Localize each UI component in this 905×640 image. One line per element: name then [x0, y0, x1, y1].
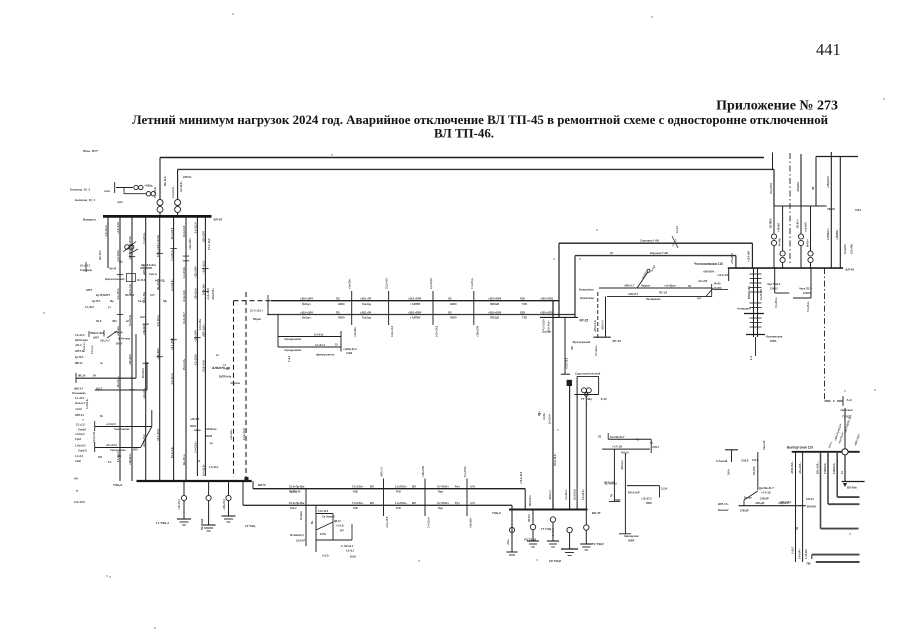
svg-text:НЗЛ9: НЗЛ9 — [338, 317, 345, 320]
svg-text:0,1+20,7: 0,1+20,7 — [80, 264, 91, 268]
svg-text:ЮРА: ЮРА — [770, 339, 777, 343]
svg-text:полн: полн — [104, 190, 110, 193]
svg-text:чапп: чапп — [117, 201, 123, 204]
svg-text:15,7+15,5 +: 15,7+15,5 + — [250, 310, 264, 313]
svg-text:ВЛ-4Т: ВЛ-4Т — [592, 511, 601, 515]
svg-text:Св-Заим43: Св-Заим43 — [322, 516, 335, 519]
svg-text:ЛЗ: ЛЗ — [796, 526, 799, 530]
svg-text:Пр.Юж-42: Пр.Юж-42 — [289, 491, 301, 494]
svg-text:5,4+15,8+: 5,4+15,8+ — [202, 464, 206, 476]
svg-text:5,9,79-Р: 5,9,79-Р — [296, 540, 305, 543]
svg-text:14ч45: 14ч45 — [714, 283, 722, 286]
svg-text:5,9+1,4+: 5,9+1,4+ — [83, 342, 86, 352]
svg-text:РчВ: РчВ — [396, 507, 401, 510]
svg-text:ДВ,19: ДВ,19 — [334, 521, 341, 523]
svg-text:Сортавал ('+95: Сортавал ('+95 — [640, 239, 660, 243]
svg-text:Аэродромная: Аэродромная — [284, 349, 302, 352]
svg-text:Гамб.8: Гамб.8 — [78, 449, 87, 453]
svg-text:т ЗАПВУ: т ЗАПВУ — [410, 303, 421, 306]
svg-text:ПИВ-8 ЧЕЗ: ПИВ-8 ЧЕЗ — [90, 331, 104, 335]
svg-text:Яуег: Яуег — [438, 507, 443, 510]
svg-text:4,2+15,8+: 4,2+15,8+ — [180, 181, 183, 192]
svg-text:+ЧЗ,9+ЛЗ: +ЧЗ,9+ЛЗ — [93, 431, 96, 443]
svg-text:НЗЛ9: НЗЛ9 — [450, 303, 457, 306]
svg-text:ВЛ-Юж: ВЛ-Юж — [847, 486, 857, 490]
svg-text:ВЛ: ВЛ — [412, 501, 416, 505]
svg-text:ВУПЯ'вЧя: ВУПЯ'вЧя — [219, 376, 232, 379]
svg-text:2Б+15,4+: 2Б+15,4+ — [182, 453, 186, 465]
svg-text:13,4+7: 13,4+7 — [676, 225, 679, 233]
svg-text:ПЗ: ПЗ — [336, 310, 340, 314]
svg-text:ГЗ ТЭЦ: ГЗ ТЭЦ — [245, 524, 256, 528]
svg-text:тр1: тр1 — [697, 297, 702, 300]
svg-text:+15+15,4: +15+15,4 — [178, 499, 181, 510]
svg-text:ЛЗ6,4: ЛЗ6,4 — [653, 446, 660, 449]
svg-text:Вбрва: Вбрва — [253, 318, 261, 321]
svg-text:2+15,7: 2+15,7 — [792, 546, 795, 554]
svg-text:4,7+ПЗА+: 4,7+ПЗА+ — [437, 485, 449, 489]
svg-text:+ВЛ+2,4: +ВЛ+2,4 — [621, 460, 624, 470]
svg-text:ЗВ,ЗЭ+: ЗВ,ЗЭ+ — [529, 513, 531, 522]
svg-text:723,9: 723,9 — [855, 209, 862, 212]
svg-text:+2,3+15,8: +2,3+15,8 — [116, 222, 120, 234]
svg-text:4,7ч: 4,7ч — [470, 485, 476, 489]
svg-text:+4,7+1В: +4,7+1В — [761, 492, 771, 495]
svg-text:+ЗБ4+ОЛ1: +ЗБ4+ОЛ1 — [540, 310, 554, 314]
svg-text:31+5В+21,7: 31+5В+21,7 — [759, 486, 774, 490]
svg-text:ВЛ ТП-46.: ВЛ ТП-46. — [434, 127, 494, 141]
svg-text:+ЗВ+ВЗч: +ЗВ+ВЗч — [128, 353, 132, 365]
svg-text:Юлы 4РгТ: Юлы 4РгТ — [83, 149, 98, 153]
svg-text:ГвкЗлд: ГвкЗлд — [362, 303, 371, 306]
svg-text:руч: руч — [340, 530, 345, 532]
svg-text:ВЛ73: ВЛ73 — [258, 483, 266, 487]
svg-text:Чер.ТЭЦ-2: Чер.ТЭЦ-2 — [767, 282, 781, 286]
svg-text:+ЗБ4+ОЛ1: +ЗБ4+ОЛ1 — [540, 297, 554, 301]
svg-text:ВЛ: ВЛ — [412, 485, 416, 489]
svg-text:1,5+ПЗА+: 1,5+ПЗА+ — [395, 501, 407, 505]
svg-text:ВЛ-87: ВЛ-87 — [214, 218, 223, 222]
svg-text:Шк.Речная: Шк.Речная — [75, 339, 88, 342]
svg-text:ВЛ7-17+: ВЛ7-17+ — [718, 502, 729, 506]
svg-text:+3+3,2+: +3+3,2+ — [336, 526, 345, 528]
svg-text:21Р4з: 21Р4з — [183, 175, 192, 179]
svg-text:7,4+15,4+: 7,4+15,4+ — [194, 441, 198, 453]
svg-text:5,4+15,8+: 5,4+15,8+ — [582, 489, 585, 500]
svg-text:С, Писка¹1: С, Писка¹1 — [341, 544, 354, 548]
svg-text:15,2+4,6+: 15,2+4,6+ — [156, 245, 160, 257]
svg-text:+2Б+ОЛ4: +2Б+ОЛ4 — [188, 238, 192, 250]
svg-text:2Л-21,0В: 2Л-21,0В — [604, 482, 615, 485]
svg-text:ТЭЦ-9: ТЭЦ-9 — [113, 483, 122, 487]
svg-text:ВкЗууч: ВкЗууч — [302, 303, 311, 306]
svg-text:СувЗ: СувЗ — [75, 438, 82, 441]
svg-text:15,4+15,6: 15,4+15,6 — [207, 238, 211, 250]
svg-text:АлЫч²а-др: АлЫч²а-др — [212, 366, 230, 370]
svg-text:ЛУ: ЛУ — [688, 285, 692, 288]
svg-text:Шкиперская-ни: Шкиперская-ни — [316, 354, 335, 357]
svg-text:ЧА: ЧА — [74, 477, 78, 481]
svg-text:КР-42: КР-42 — [613, 339, 622, 343]
svg-text:+4(23)+21,9: +4(23)+21,9 — [343, 348, 357, 351]
svg-text:15,2+4,6+: 15,2+4,6+ — [386, 277, 389, 289]
svg-text:94,59: 94,59 — [320, 533, 326, 536]
svg-text:2и+5В+21,7: 2и+5В+21,7 — [610, 435, 625, 439]
svg-text:Гамб: Гамб — [75, 460, 81, 463]
svg-text:ГВ ТЭЦ2: ГВ ТЭЦ2 — [524, 538, 536, 542]
svg-text:Б1+Б2,3: Б1+Б2,3 — [142, 367, 145, 378]
svg-text:2,3+16,5: 2,3+16,5 — [74, 500, 85, 504]
svg-text:Суворовская: Суворовская — [110, 449, 126, 452]
svg-text:Вакарел: Вакарел — [83, 218, 96, 222]
svg-text:15,4+15,6: 15,4+15,6 — [156, 429, 160, 441]
svg-text:14,9+14,6: 14,9+14,6 — [436, 325, 439, 337]
svg-text:21АВЗ: 21АВЗ — [714, 287, 722, 290]
svg-text:ВЛ-42: ВЛ-42 — [846, 267, 855, 271]
svg-text:15,2+4,6+: 15,2+4,6+ — [170, 446, 174, 458]
svg-text:ГамбЗ: ГамбЗ — [78, 427, 86, 431]
svg-text:РуБ: РуБ — [353, 491, 358, 494]
svg-text:Суворовская: Суворовская — [114, 428, 130, 431]
svg-text:ЖК,14: ЖК,14 — [78, 375, 86, 378]
svg-text:2чВА115+: 2чВА115+ — [824, 462, 827, 474]
svg-text:4,7+21,4: 4,7+21,4 — [315, 344, 325, 347]
svg-text:1,9+3,2: 1,9+3,2 — [346, 550, 355, 553]
svg-text:ЬЛГУ: ЬЛГУ — [104, 294, 111, 297]
svg-text:Щ6-78,5+Вяз: Щ6-78,5+Вяз — [141, 264, 157, 267]
svg-text:РуБ: РуБ — [353, 507, 358, 510]
svg-text:НЗЧ9нов: НЗЧ9нов — [206, 428, 217, 431]
svg-text:м: м — [76, 489, 78, 493]
svg-text:1З,5+Лбх: 1З,5+Лбх — [851, 243, 854, 254]
svg-text:Г1 ТЭЦ 3: Г1 ТЭЦ 3 — [156, 521, 169, 525]
svg-text:+Бч+1З,З: +Бч+1З,З — [106, 444, 117, 447]
svg-text:1+15,9б+: 1+15,9б+ — [805, 548, 808, 559]
svg-text:ВЛ: ВЛ — [370, 485, 374, 489]
svg-text:КР-15: КР-15 — [580, 319, 589, 323]
svg-text:2Б+15,4+: 2Б+15,4+ — [194, 287, 198, 299]
svg-text:+15,4+15,2: +15,4+15,2 — [520, 471, 523, 484]
svg-text:Колышево: Колышево — [72, 391, 86, 395]
svg-text:+ЗБ4+ЗЛ4: +ЗБ4+ЗЛ4 — [300, 297, 313, 301]
svg-text:+ВЛ+7,4: +ВЛ+7,4 — [602, 320, 605, 330]
svg-text:1,4+0,2: 1,4+0,2 — [75, 455, 84, 458]
svg-text:+ВЛ+7,4: +ВЛ+7,4 — [549, 490, 552, 500]
svg-text:Горбунки: Горбунки — [80, 268, 92, 272]
svg-text:9.-2: 9.-2 — [750, 355, 753, 360]
svg-text:44,7+ПД: 44,7+ПД — [155, 280, 165, 283]
svg-text:+2Б+ОЛ4: +2Б+ОЛ4 — [476, 325, 479, 337]
svg-text:+2,3+15,8: +2,3+15,8 — [386, 516, 389, 528]
svg-text:Жр: Жр — [110, 300, 114, 303]
svg-text:+ЧЗ,9: +ЧЗ,9 — [75, 408, 82, 411]
svg-text:+ЗВ+ВЗч: +ЗВ+ВЗч — [142, 323, 146, 335]
svg-text:5,4+5,4+: 5,4+5,4+ — [548, 413, 552, 424]
svg-text:Невская: Невская — [841, 408, 853, 412]
svg-text:+9Б+15,3: +9Б+15,3 — [223, 498, 226, 510]
svg-text:НЗЛ9: НЗЛ9 — [338, 303, 345, 306]
svg-text:ЧЕЗ: ЧЕЗ — [112, 320, 117, 323]
svg-text:ВЛ+14,6Р: ВЛ+14,6Р — [628, 492, 640, 495]
svg-text:15,2+4,6+: 15,2+4,6+ — [182, 358, 186, 370]
svg-text:+2,3+15,8: +2,3+15,8 — [206, 288, 210, 300]
svg-text:Судостроительный: Судостроительный — [575, 371, 601, 375]
svg-text:Связ 2А: Связ 2А — [763, 440, 766, 450]
svg-text:+ВЛ+ДГ: +ВЛ+ДГ — [755, 502, 765, 505]
svg-text:7,4+15,4+: 7,4+15,4+ — [170, 249, 174, 261]
svg-text:СН2,8: СН2,8 — [741, 459, 749, 463]
svg-text:214ВЗ: 214ВЗ — [770, 288, 778, 291]
svg-text:ТЗ ТЭЦ7: ТЗ ТЭЦ7 — [592, 542, 604, 546]
svg-text:441: 441 — [816, 40, 841, 59]
svg-text:3,4+15,3+: 3,4+15,3+ — [194, 221, 198, 233]
svg-text:+15А+15,2: +15А+15,2 — [202, 261, 206, 274]
svg-text:14,9+14,6: 14,9+14,6 — [202, 360, 206, 372]
svg-text:+об+Щелг: +об+Щелг — [664, 285, 676, 288]
svg-text:Летний минимум нагрузок 2024 г: Летний минимум нагрузок 2024 год. Аварий… — [132, 113, 829, 127]
svg-text:Балахна_10_2: Балахна_10_2 — [70, 188, 91, 192]
svg-text:15,4+15,2+: 15,4+15,2+ — [554, 453, 557, 466]
svg-text:4,7ч: 4,7ч — [470, 501, 476, 505]
svg-text:ум: ум — [538, 414, 541, 416]
svg-text:+2,3ч2,3: +2,3ч2,3 — [75, 433, 85, 436]
svg-text:+2Б+ОЛ4: +2Б+ОЛ4 — [194, 266, 198, 278]
svg-text:ЛЭП-44: ЛЭП-44 — [75, 414, 84, 417]
svg-text:ГЗВ: ГЗВ — [522, 303, 527, 306]
svg-text:5,9+14,9: 5,9+14,9 — [75, 334, 85, 337]
svg-text:2Б+15,4+: 2Б+15,4+ — [116, 376, 120, 388]
svg-text:7,4+15,4+: 7,4+15,4+ — [428, 516, 431, 528]
svg-text:ЛВ: ЛВ — [812, 186, 815, 190]
svg-text:АН29: АН29 — [346, 352, 353, 355]
svg-text:15,4+ПЗч: 15,4+ПЗч — [770, 182, 773, 194]
svg-text:1ЗЛ5ВЗч+: 1ЗЛ5ВЗч+ — [827, 228, 830, 240]
svg-text:ЛбЛ: ЛбЛ — [133, 449, 138, 452]
svg-text:+4д5+24,7: +4д5+24,7 — [779, 501, 792, 504]
svg-text:14+14А+: 14+14А+ — [799, 549, 802, 559]
svg-text:Заводская: Заводская — [624, 534, 639, 538]
svg-text:15,4+15,6: 15,4+15,6 — [574, 489, 577, 500]
svg-text:ВЗ-Юч+: ВЗ-Юч+ — [798, 218, 800, 228]
svg-text:Выборгская 110: Выборгская 110 — [787, 446, 813, 450]
svg-text:1,5+ПЗА+: 1,5+ПЗА+ — [395, 485, 407, 489]
svg-text:Колыч-2: Колыч-2 — [75, 402, 86, 405]
svg-text:Чесноковская 110: Чесноковская 110 — [694, 262, 723, 266]
svg-text:Руч: Руч — [455, 485, 460, 489]
svg-text:ПС-19: ПС-19 — [659, 291, 668, 295]
svg-text:+ЗБ1+ОЛ4: +ЗБ1+ОЛ4 — [408, 310, 422, 314]
svg-text:ГВ ТЭЦ5: ГВ ТЭЦ5 — [549, 559, 561, 563]
svg-text:9д-78,5: 9д-78,5 — [96, 294, 105, 297]
svg-text:+ВЛ+3,7: +ВЛ+3,7 — [624, 284, 635, 287]
svg-text:+2и+2А+: +2и+2А+ — [229, 429, 233, 440]
svg-text:ВЗ-ПВЛ+: ВЗ-ПВЛ+ — [771, 217, 773, 228]
svg-text:Чудово: Чудово — [641, 284, 651, 287]
svg-text:ЛЗУ: ЛЗУ — [520, 297, 525, 301]
svg-text:+2Б+ОЛ4: +2Б+ОЛ4 — [422, 465, 425, 477]
svg-text:2А,ЗЛА: 2А,ЗЛА — [753, 466, 756, 475]
svg-text:5Б+ЮЗч+: 5Б+ЮЗч+ — [529, 494, 532, 506]
svg-text:4+152,2+: 4+152,2+ — [86, 398, 89, 409]
svg-text:24,9+: 24,9+ — [728, 468, 731, 475]
svg-text:5,4+15,8+: 5,4+15,8+ — [156, 234, 160, 246]
svg-text:3+4,2: 3+4,2 — [288, 355, 291, 362]
svg-text:2Б+15,4+: 2Б+15,4+ — [164, 175, 167, 186]
svg-text:Пискарёвка: Пискарёвка — [646, 298, 661, 301]
svg-text:+ВЛ+ВЛч: +ВЛ+ВЛч — [703, 271, 715, 274]
svg-text:2,3+15,2+: 2,3+15,2+ — [104, 224, 108, 236]
svg-text:9,9+1,2: 9,9+1,2 — [91, 345, 94, 354]
svg-text:ЖБ-14: ЖБ-14 — [75, 362, 83, 365]
svg-text:+ЗВ+ВЗч: +ЗВ+ВЗч — [156, 348, 160, 360]
svg-text:≈5В/д: ≈5В/д — [145, 184, 153, 188]
svg-text:Ковалёво: Ковалёво — [579, 288, 594, 292]
svg-text:СЛ6,8Р: СЛ6,8Р — [740, 510, 749, 513]
svg-text:14,9+14,6: 14,9+14,6 — [182, 290, 186, 302]
svg-text:Жр: Жр — [119, 261, 123, 264]
svg-text:+2Б+ОЛ4: +2Б+ОЛ4 — [194, 330, 198, 342]
svg-text:24+14А: 24+14А — [552, 528, 555, 536]
svg-text:+ВЗвЮЗ: +ВЗвЮЗ — [797, 181, 800, 192]
svg-text:+2и+2А+: +2и+2А+ — [354, 326, 357, 337]
svg-text:14,9+14,6+: 14,9+14,6+ — [548, 320, 551, 333]
svg-text:+ВЛ+14,4+: +ВЛ+14,4+ — [594, 319, 597, 332]
svg-text:9д-78,5: 9д-78,5 — [75, 356, 84, 359]
svg-text:+Вл+15А+: +Вл+15А+ — [799, 462, 802, 474]
svg-text:СЛ6,8Р: СЛ6,8Р — [760, 498, 769, 501]
svg-text:+7В+ВЛ: +7В+ВЛ — [779, 223, 781, 232]
svg-text:4,2+15,8+: 4,2+15,8+ — [194, 353, 198, 365]
svg-text:+ВЛ+15А+: +ВЛ+15А+ — [202, 324, 206, 337]
svg-text:14,9+14,6: 14,9+14,6 — [182, 225, 186, 237]
svg-text:+ВЛ+15А+: +ВЛ+15А+ — [212, 287, 215, 300]
svg-text:15,4+Пр.Юж: 15,4+Пр.Юж — [289, 485, 304, 489]
svg-text:4,2+15,8+: 4,2+15,8+ — [430, 277, 433, 289]
svg-text:7,5+15А+: 7,5+15А+ — [352, 501, 364, 505]
svg-text:4,2+15,8+: 4,2+15,8+ — [182, 266, 186, 278]
svg-text:+2и+2А+: +2и+2А+ — [349, 278, 352, 289]
svg-text:Ч-Прлов: Ч-Прлов — [230, 382, 241, 385]
svg-text:Фрезерный: Фрезерный — [573, 340, 591, 344]
svg-text:+ЗБ1+Л4: +ЗБ1+Л4 — [360, 310, 372, 314]
svg-text:ВУЗУ: ВУЗУ — [116, 343, 123, 346]
svg-text:+ЛЗ+ВЗч: +ЛЗ+ВЗч — [731, 252, 734, 264]
svg-text:Воронеж Г-9В: Воронеж Г-9В — [650, 251, 668, 255]
svg-text:2чВА115+: 2чВА115+ — [833, 462, 836, 474]
svg-text:Г7 ТЭЦ: Г7 ТЭЦ — [541, 527, 552, 531]
svg-text:14,9А: 14,9А — [543, 413, 546, 420]
svg-text:ВЛ: ВЛ — [370, 501, 374, 505]
svg-text:7,4+15,4+: 7,4+15,4+ — [565, 489, 568, 500]
svg-text:15,4+Пр.Юж: 15,4+Пр.Юж — [289, 501, 304, 505]
svg-text:214ЛЗ: 214ЛЗ — [803, 292, 811, 295]
svg-text:+9Б+5,3: +9Б+5,3 — [190, 418, 200, 421]
svg-text:7,4+15,4+: 7,4+15,4+ — [471, 277, 474, 289]
svg-text:Приложение № 273: Приложение № 273 — [716, 99, 838, 114]
svg-text:3+3,2+: 3+3,2+ — [322, 555, 330, 558]
svg-text:39-72,6: 39-72,6 — [137, 279, 146, 282]
svg-text:+ВЛ+П,7: +ВЛ+П,7 — [628, 293, 639, 296]
svg-text:+Б1,2: +Б1,2 — [75, 344, 82, 347]
svg-text:ЛЗ: ЛЗ — [448, 297, 452, 301]
svg-text:1З,ЗьЮх: 1З,ЗьЮх — [845, 243, 847, 254]
svg-text:Ш-Речная: Ш-Речная — [118, 338, 131, 341]
svg-text:ТЭЦ-9: ТЭЦ-9 — [492, 511, 501, 515]
svg-text:2,1+1,5: 2,1+1,5 — [76, 423, 85, 427]
svg-text:ЮРА: ЮРА — [628, 539, 635, 543]
svg-text:ПВ: ПВ — [807, 562, 811, 566]
svg-text:т ЗАПВУ: т ЗАПВУ — [410, 317, 421, 320]
svg-text:3-Анин8: 3-Анин8 — [716, 459, 728, 463]
svg-text:+5А+: +5А+ — [507, 539, 510, 545]
svg-text:ВУ29: ВУ29 — [190, 425, 196, 428]
svg-text:А-С: А-С — [847, 398, 853, 402]
svg-text:126,4б: 126,4б — [806, 498, 814, 501]
svg-text:12,4+15,7: 12,4+15,7 — [182, 312, 186, 324]
svg-text:3,4+15,3+: 3,4+15,3+ — [156, 314, 160, 326]
svg-text:ГЗВ: ГЗВ — [522, 317, 527, 320]
svg-text:ПЗ: ПЗ — [336, 297, 340, 301]
svg-text:+2Б+ОЛ4: +2Б+ОЛ4 — [202, 231, 206, 243]
svg-text:7,5+15А+: 7,5+15А+ — [352, 485, 364, 489]
svg-text:15,4+15,6: 15,4+15,6 — [170, 227, 174, 239]
svg-text:+2и+2А+: +2и+2А+ — [142, 387, 146, 398]
svg-text:2,3+15,2: 2,3+15,2 — [209, 466, 219, 469]
svg-text:84-082+: 84-082+ — [778, 237, 781, 246]
svg-text:3,4+15,3+: 3,4+15,3+ — [170, 372, 174, 384]
svg-text:+Пл+ПЗ: +Пл+ПЗ — [698, 280, 708, 283]
svg-text:ЬЛГУ: ЬЛГУ — [93, 337, 100, 340]
svg-text:НЗЛ9: НЗЛ9 — [450, 317, 457, 320]
svg-text:5,4+15,8+: 5,4+15,8+ — [464, 465, 467, 477]
svg-text:Красносель­ская: Красносель­ская — [105, 278, 125, 281]
svg-text:63,95: 63,95 — [350, 557, 356, 559]
svg-text:+ЗВЗВЗ+: +ЗВЗВЗ+ — [836, 229, 839, 240]
svg-text:ЛЗ: ЛЗ — [598, 436, 602, 439]
svg-text:4,7+14,4+: 4,7+14,4+ — [595, 345, 598, 356]
svg-text:1,4м+0,2: 1,4м+0,2 — [75, 444, 86, 448]
svg-text:Вжима2: Вжима2 — [718, 508, 729, 512]
svg-text:44,7: 44,7 — [150, 294, 155, 297]
svg-text:+ЗБ4+ЗЛ4: +ЗБ4+ЗЛ4 — [300, 310, 313, 314]
svg-text:Пв-8: Пв-8 — [96, 320, 102, 323]
svg-text:Руч: Руч — [455, 501, 460, 505]
svg-text:ВЦ76: ВЦ76 — [206, 435, 213, 438]
svg-text:19-Звкв: 19-Звкв — [301, 511, 303, 520]
svg-text:мЗ: мЗ — [197, 460, 201, 463]
svg-text:ЮРА: ЮРА — [646, 502, 652, 505]
svg-text:+15,4+ВЗ: +15,4+ВЗ — [748, 250, 751, 262]
svg-text:+Б1,2+2: +Б1,2+2 — [100, 340, 110, 343]
svg-text:7,4+15,4+: 7,4+15,4+ — [142, 232, 146, 244]
svg-text:4Ь+15,2: 4Ь+15,2 — [99, 250, 102, 260]
svg-text:ГВ ТЭЦ5: ГВ ТЭЦ5 — [200, 518, 204, 530]
svg-text:13,4+15а: 13,4+15а — [198, 319, 202, 330]
svg-text:ВЛ9б1п+ВЗ: ВЛ9б1п+ВЗ — [748, 285, 751, 299]
svg-text:ГвкЗлд: ГвкЗлд — [362, 317, 371, 320]
svg-text:Антршино: Антршино — [737, 307, 751, 311]
svg-text:24,9+14А: 24,9+14А — [202, 284, 206, 295]
svg-text:аВБ-14: аВБ-14 — [74, 387, 83, 391]
svg-text:4,2+15,8+: 4,2+15,8+ — [170, 279, 174, 291]
svg-text:4,7+ПЗА+: 4,7+ПЗА+ — [437, 501, 449, 505]
svg-text:12,5А: 12,5А — [661, 488, 668, 491]
svg-text:ЛБ: ЛБ — [571, 346, 574, 350]
svg-text:ЛЗ: ЛЗ — [448, 310, 452, 314]
svg-text:Сев-тя: Сев-тя — [149, 273, 157, 276]
svg-text:+13+37,5: +13+37,5 — [641, 498, 652, 501]
svg-text:+2и+2А+: +2и+2А+ — [470, 517, 473, 528]
